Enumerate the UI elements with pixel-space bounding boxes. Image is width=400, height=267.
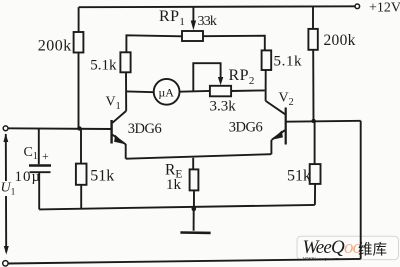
wire 5.1k left to V1 collector (125, 72, 127, 111)
junction dot V1 base node (77, 126, 81, 130)
label U1 (0, 181, 16, 198)
potentiometer RP1 (182, 7, 203, 41)
terminal +12V (355, 4, 360, 9)
wire V1 emitter down (125, 144, 127, 159)
junction dot V2 base node (311, 119, 315, 123)
resistor right 200k (308, 6, 317, 121)
wire V1 collector node to meter (126, 90, 154, 93)
terminal input top (3, 126, 8, 131)
resistor RE 1k (190, 158, 199, 209)
transistor V1 3DG6 (112, 111, 127, 144)
resistor right 5.1k (262, 50, 272, 70)
svg-text:51k: 51k (90, 167, 114, 184)
svg-text:+: + (42, 149, 49, 163)
meter uA (154, 79, 180, 105)
wire RP1 left to 5.1k left (126, 35, 182, 52)
svg-text:200k: 200k (38, 37, 72, 54)
terminal input bottom (3, 261, 8, 266)
resistor right 51k (310, 121, 321, 205)
potentiometer RP2 (193, 63, 231, 96)
resistor left 200k (74, 7, 84, 128)
svg-text:维库: 维库 (358, 242, 387, 259)
wire 5.1k right down to RP2 node (265, 70, 267, 101)
wire feedback right vertical (360, 121, 362, 259)
svg-text:1k: 1k (166, 177, 182, 193)
wire V2 emitter down (270, 140, 272, 154)
svg-text:3.3k: 3.3k (210, 99, 237, 115)
wire V2 base (286, 120, 361, 123)
wire bottom ground rail (39, 205, 315, 210)
wire emitter rail (126, 154, 272, 159)
watermark WeeQoo (297, 236, 399, 261)
svg-text:3DG6: 3DG6 (229, 119, 263, 135)
svg-text:3DG6: 3DG6 (128, 121, 162, 137)
wire RP1 right to 5.1k right (203, 36, 265, 51)
transistor V2 3DG6 (266, 101, 286, 145)
resistor left 51k (76, 128, 87, 209)
svg-text:51k: 51k (287, 167, 311, 184)
junction dot ground rail / RE (192, 207, 197, 212)
wire RP2 to V2 collector line (231, 89, 265, 92)
svg-text:5.1k: 5.1k (90, 57, 117, 73)
wire meter to RP2 (180, 90, 210, 93)
capacitor C1 (29, 128, 51, 209)
wire feedback bottom (8, 259, 361, 264)
wire top +12V rail (79, 5, 355, 8)
wire V1 base (8, 127, 111, 130)
svg-text:33k: 33k (198, 14, 217, 29)
svg-text:10µ: 10µ (15, 169, 42, 185)
svg-text:200k: 200k (324, 32, 356, 49)
svg-text:+12V: +12V (369, 0, 400, 15)
ground (180, 209, 210, 233)
resistor left 5.1k (120, 52, 130, 72)
source U1 voltage arrow (3, 134, 8, 255)
svg-text:µA: µA (158, 85, 174, 99)
svg-text:5.1k: 5.1k (274, 54, 303, 70)
